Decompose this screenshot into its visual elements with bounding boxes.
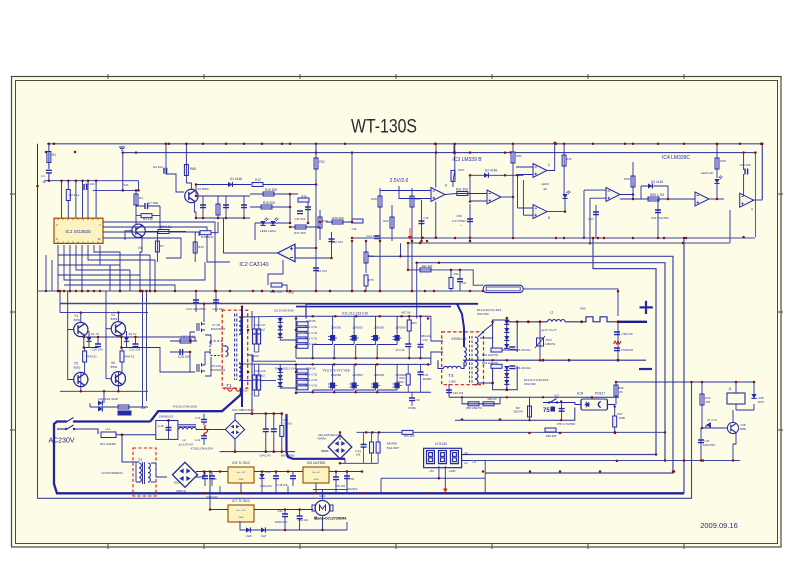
wire IC7 bottom loop bbox=[240, 521, 347, 530]
svg-text:R33: R33 bbox=[566, 157, 572, 161]
wire IC1 right fan4 bbox=[103, 238, 181, 258]
label LED3 bbox=[541, 182, 549, 186]
wire B in2 bbox=[470, 200, 487, 202]
inductor L1 bbox=[548, 320, 566, 322]
label 51 925 bbox=[387, 446, 400, 450]
label V4 8050b bbox=[111, 317, 118, 321]
label R63 470W bbox=[399, 376, 405, 380]
wire LY LO bbox=[462, 460, 470, 462]
label R56 387W bbox=[466, 406, 482, 410]
wire sec right col up bbox=[516, 322, 518, 352]
label R18 70K bbox=[270, 290, 283, 294]
label R30 51 bbox=[201, 235, 214, 239]
label C40 bbox=[195, 416, 201, 420]
wire bank1 top bbox=[296, 315, 431, 317]
resistor R1 bbox=[47, 152, 51, 163]
label V4 8050 bbox=[111, 313, 115, 317]
wire R20 link bbox=[453, 144, 455, 187]
transformer T1 box bbox=[222, 310, 248, 388]
svg-text:8059: 8059 bbox=[111, 317, 118, 321]
svg-text:Z1 4.7V: Z1 4.7V bbox=[707, 418, 717, 422]
transistor Y3 bbox=[74, 322, 88, 336]
wire R7 link bbox=[156, 232, 158, 263]
svg-text:C7 39E: C7 39E bbox=[148, 201, 158, 205]
wire x122 drop bbox=[122, 153, 124, 191]
junction dots comparator mesh bbox=[289, 193, 354, 229]
label LED1 LED2 bbox=[260, 229, 276, 233]
svg-text:220u2: 220u2 bbox=[257, 328, 265, 332]
svg-text:IC3 LM339 B: IC3 LM339 B bbox=[452, 157, 482, 163]
wire R59 row bbox=[620, 198, 695, 200]
wire bus Pd bbox=[683, 238, 685, 493]
label B46R69 bbox=[387, 442, 398, 446]
resistor R30b bbox=[449, 278, 453, 289]
capacitor C38 bbox=[614, 332, 620, 335]
wire LED drop bbox=[254, 223, 256, 240]
transformer T3 core bbox=[143, 462, 145, 484]
digit 2 bbox=[439, 451, 447, 464]
wire bank1 q1 leads bbox=[334, 316, 354, 358]
wire E3 leads bbox=[166, 144, 184, 192]
svg-text:C35 223/1kv: C35 223/1kv bbox=[515, 348, 531, 352]
svg-text:A: A bbox=[751, 207, 753, 211]
svg-text:104/58V/X2: 104/58V/X2 bbox=[159, 415, 174, 419]
label V6 8550 bbox=[111, 361, 115, 365]
winding T4 primary bbox=[464, 347, 466, 366]
wire fuse out bbox=[116, 435, 136, 462]
resistor R50 bbox=[297, 327, 308, 331]
wire R56 links bbox=[462, 403, 500, 405]
wire R62 out bbox=[502, 349, 517, 351]
wire R75 link bbox=[365, 286, 367, 291]
svg-text:75: 75 bbox=[543, 408, 550, 414]
wire output rail 322 bbox=[509, 321, 548, 323]
wire IC1 right fan1 bbox=[103, 222, 215, 291]
svg-text:40405×: 40405× bbox=[317, 437, 327, 441]
wire bus Pc bbox=[417, 263, 665, 461]
svg-text:D6,D7,D8 4148: D6,D7,D8 4148 bbox=[274, 309, 294, 313]
capacitor C20 bbox=[745, 169, 748, 175]
svg-text:IC7 TL7812: IC7 TL7812 bbox=[232, 499, 250, 503]
wire Pc drop bbox=[416, 263, 418, 319]
svg-text:GND: GND bbox=[314, 479, 319, 481]
wire tangle horiz extra bbox=[58, 265, 140, 275]
wire R27 row bbox=[408, 270, 483, 285]
wire V1 emitter bbox=[140, 236, 142, 291]
label 1000u2hv bbox=[206, 495, 219, 499]
svg-text:D3 4148: D3 4148 bbox=[651, 180, 663, 184]
wire V28 emit bbox=[733, 433, 736, 461]
resistor R19 bbox=[318, 217, 322, 228]
label C22b bbox=[42, 180, 46, 184]
svg-text:WT-130S: WT-130S bbox=[351, 117, 417, 138]
label C44 C43 bbox=[259, 454, 270, 458]
resistor R49 bbox=[297, 322, 308, 326]
label R37 25K bbox=[294, 231, 306, 235]
resistor R55 bbox=[297, 375, 308, 379]
label 22N050 b2-0 bbox=[331, 373, 342, 377]
label C28C29 val bbox=[257, 374, 265, 378]
label D12-15 bbox=[477, 308, 502, 312]
label R57 4.7 bbox=[305, 384, 317, 388]
label B47 357W bbox=[516, 406, 521, 410]
wire motor top bbox=[313, 489, 323, 499]
wire V1 base bbox=[125, 231, 133, 240]
diode D13 bbox=[504, 328, 509, 332]
svg-text:R65: R65 bbox=[580, 307, 586, 311]
svg-text:10K: 10K bbox=[706, 400, 711, 404]
wire C55 link bbox=[561, 401, 563, 420]
op-amp U3D bbox=[533, 205, 547, 219]
op-amp U4B bbox=[740, 193, 754, 207]
diode D18b bbox=[504, 380, 509, 384]
wire bridge D20 out bbox=[196, 472, 204, 478]
svg-text:Z2 7V: Z2 7V bbox=[128, 332, 136, 336]
svg-text:R3 13K: R3 13K bbox=[143, 217, 153, 221]
resistor R29 bbox=[332, 220, 343, 224]
wire mosfet s1 bbox=[205, 335, 211, 345]
wire RV4 col bbox=[539, 322, 541, 360]
svg-text:C36 223/1kv: C36 223/1kv bbox=[515, 366, 531, 370]
svg-text:KBP1H: KBP1H bbox=[176, 489, 186, 493]
label AC230V bbox=[48, 438, 74, 445]
wire LY GND drop bbox=[444, 466, 446, 490]
wire rail 419 bbox=[455, 408, 575, 421]
label V7V8 IRFZ44N bbox=[212, 323, 221, 327]
svg-text:R64 22Ω/7W: R64 22Ω/7W bbox=[482, 361, 498, 365]
label R3 13K bbox=[143, 217, 153, 221]
wire D1 link bbox=[196, 184, 251, 186]
resistor R31 bbox=[457, 192, 468, 196]
svg-text:C28 104: C28 104 bbox=[91, 348, 103, 352]
label R72b bbox=[706, 400, 711, 404]
resistor R36c bbox=[545, 428, 556, 432]
diode D17 bbox=[504, 373, 509, 377]
IC U6 UA7805 box bbox=[303, 467, 329, 483]
transistor V7 V8 mosfet bbox=[197, 322, 205, 332]
svg-text:R64: R64 bbox=[411, 321, 417, 325]
label D2 4148 bbox=[485, 169, 497, 173]
wire T4 primary bot bbox=[461, 362, 464, 369]
inductor L2 core bbox=[179, 425, 197, 427]
wire R30 out bbox=[211, 222, 218, 233]
label IC5 pins bbox=[237, 472, 246, 474]
wire C48x link bbox=[168, 421, 170, 440]
label T3 bbox=[138, 458, 142, 462]
label C16 bbox=[352, 227, 357, 231]
wire AC thick loop bbox=[54, 422, 684, 494]
capacitor C50 bbox=[333, 477, 339, 480]
label LED4 bbox=[701, 171, 713, 175]
wire comparator rail 238 bbox=[352, 237, 755, 239]
label Z1 4.7V bbox=[707, 418, 717, 422]
svg-text:R76 100: R76 100 bbox=[404, 434, 415, 438]
transformer T1 core bbox=[235, 314, 237, 381]
wire bank right parts bbox=[408, 316, 420, 406]
label IC6 UA7805 bbox=[307, 461, 326, 465]
wire xcap col bbox=[203, 414, 205, 445]
label R52 4.7 bbox=[305, 336, 317, 340]
svg-text:68/120v: 68/120v bbox=[421, 334, 432, 338]
capacitor C13b bbox=[361, 445, 367, 448]
winding T1 right lower bbox=[239, 363, 241, 381]
label R59 4.7M bbox=[650, 193, 664, 197]
svg-text:带amp•DC12V300MA: 带amp•DC12V300MA bbox=[314, 516, 347, 521]
svg-text:220×: 220× bbox=[253, 354, 260, 358]
label C48 bbox=[277, 483, 288, 487]
date 2009.09.16 bbox=[700, 521, 738, 530]
wire B out bbox=[501, 196, 513, 198]
wire BD verticals bbox=[518, 175, 524, 215]
label R16 35K bbox=[265, 188, 278, 192]
svg-text:K2: K2 bbox=[555, 394, 559, 398]
capacitor C28 bbox=[95, 344, 101, 347]
wire R56 drop bbox=[462, 397, 500, 404]
junction dots rails152 bbox=[168, 143, 763, 154]
wire top rail second bbox=[122, 152, 756, 154]
svg-text:9056: 9056 bbox=[740, 427, 747, 431]
svg-text:R11 10Ω/5W: R11 10Ω/5W bbox=[100, 442, 116, 446]
wire thick rail T4b bbox=[305, 304, 307, 319]
label R65 bbox=[580, 307, 586, 311]
label L2 bbox=[182, 438, 186, 442]
wire U4D out bbox=[620, 195, 633, 200]
svg-text:C34 104: C34 104 bbox=[453, 391, 464, 395]
wire D1 drop bbox=[195, 185, 197, 197]
wire R27 stub up bbox=[407, 243, 409, 270]
bridge rectifier D20 bbox=[173, 462, 198, 487]
label C14 100 bbox=[366, 234, 378, 238]
svg-text:AC230V: AC230V bbox=[48, 438, 74, 445]
wire IC6 gnd drop bbox=[315, 483, 317, 493]
label R36 300 bbox=[546, 434, 557, 438]
svg-text:D92×052: D92×052 bbox=[477, 312, 489, 316]
resistor R69 bbox=[376, 442, 380, 453]
wire IC1 pin3 down bbox=[69, 245, 71, 291]
wire C30 link bbox=[307, 202, 309, 223]
label R37 100Kb bbox=[619, 416, 626, 420]
wire T3 sec out bbox=[151, 463, 167, 477]
wire D22 row bbox=[90, 406, 148, 408]
svg-text:D92×052: D92×052 bbox=[524, 382, 536, 386]
wire C13v link bbox=[331, 232, 333, 258]
capacitor C55 bbox=[559, 409, 565, 412]
wire Z2 net bbox=[121, 331, 135, 348]
label 22N050 b1-1 bbox=[352, 326, 363, 330]
wire bank1 left bbox=[295, 316, 297, 358]
svg-text:R29 29K: R29 29K bbox=[332, 216, 344, 220]
label 22N050 b2-3 bbox=[395, 373, 406, 377]
label R72 10K bbox=[705, 396, 711, 400]
svg-text:C12 104: C12 104 bbox=[331, 240, 343, 244]
wire dc minus rail bbox=[220, 451, 296, 453]
wire AC thick diag bbox=[150, 388, 241, 422]
capacitor C13v bbox=[329, 239, 335, 242]
resistor R51 bbox=[297, 333, 308, 337]
label B6 5.1K bbox=[160, 225, 172, 229]
svg-text:R32: R32 bbox=[516, 154, 522, 158]
svg-text:R56: R56 bbox=[624, 177, 630, 181]
resistor R46 bbox=[715, 158, 719, 169]
IC1 pin num 8 bbox=[56, 237, 58, 241]
label E3 104 bbox=[153, 165, 163, 169]
svg-text:AC15V/300MAM: AC15V/300MAM bbox=[102, 471, 124, 475]
label J1 bbox=[728, 387, 732, 391]
transformer T1 coupling box bbox=[210, 341, 222, 356]
wire DC minus tail bbox=[344, 459, 346, 464]
label D16-19b bbox=[524, 382, 536, 386]
label Y5 8550 bbox=[74, 362, 78, 366]
wire bank1 q0 leads bbox=[313, 316, 333, 358]
wire V6 col bbox=[117, 372, 119, 392]
svg-text:600L/50V: 600L/50V bbox=[346, 487, 357, 491]
label R56r bbox=[284, 418, 289, 422]
wire bank2 q1 leads bbox=[334, 364, 354, 392]
label C37b bbox=[703, 443, 716, 447]
wire L1 out bbox=[565, 321, 584, 323]
label C25 105 bbox=[178, 355, 190, 359]
wire R18 out bbox=[282, 285, 287, 291]
capacitor C35 bbox=[509, 347, 515, 350]
svg-text:C28,C29: C28,C29 bbox=[254, 369, 265, 373]
capacitor C39 bbox=[614, 348, 620, 351]
capacitor C30 bbox=[305, 207, 311, 210]
wire T4 sec top out bbox=[478, 320, 509, 337]
svg-text:4E7,5K: 4E7,5K bbox=[401, 311, 411, 315]
resistor R53 bbox=[297, 344, 308, 348]
junction dots bottom rails bbox=[203, 432, 676, 495]
svg-text:C-4φ: C-4φ bbox=[355, 449, 361, 453]
wire hbridge bot drop bbox=[103, 391, 105, 403]
capacitor C36 bbox=[467, 219, 473, 222]
svg-text:R24: R24 bbox=[368, 254, 374, 258]
wire bank2 q0 leads bbox=[313, 364, 333, 392]
label D30 lbl2 bbox=[317, 437, 327, 441]
svg-text:D21 GBPC3610: D21 GBPC3610 bbox=[232, 408, 254, 412]
svg-text:L2: L2 bbox=[182, 438, 186, 442]
wire bank2 bot bbox=[296, 391, 431, 393]
svg-text:14B/151: 14B/151 bbox=[545, 342, 556, 346]
output plus mark bbox=[640, 301, 653, 314]
wire R15 link bbox=[250, 206, 290, 208]
label R46 1K bbox=[720, 159, 726, 163]
switch S1a bbox=[65, 418, 75, 423]
svg-text:51Ω.25Ω*: 51Ω.25Ω* bbox=[387, 446, 400, 450]
label C36 bbox=[456, 214, 462, 218]
junction dots regs bbox=[203, 470, 364, 494]
svg-text:C55 4.7U/50V: C55 4.7U/50V bbox=[557, 422, 576, 426]
wire C1 down bbox=[48, 173, 50, 181]
svg-text:C53: C53 bbox=[277, 509, 283, 513]
wire bank1 q2 leads bbox=[356, 316, 376, 358]
label R37 100K bbox=[617, 412, 623, 416]
resistor R36 bbox=[298, 198, 309, 202]
label R56r b bbox=[284, 422, 293, 426]
svg-text:C50 104: C50 104 bbox=[335, 484, 345, 488]
svg-text:L1: L1 bbox=[550, 311, 554, 315]
op-amp U2 CA3140 bbox=[278, 244, 296, 262]
wire U4B out bbox=[752, 199, 762, 201]
wire C46 links bbox=[205, 472, 212, 487]
wire bank mid link bbox=[248, 355, 253, 361]
IC1 pin ticks bbox=[58, 218, 98, 243]
capacitor C8 bbox=[84, 184, 87, 190]
svg-text:C14 100: C14 100 bbox=[366, 234, 378, 238]
svg-text:R56 4.7Ω: R56 4.7Ω bbox=[305, 378, 317, 382]
wire R12 out bbox=[263, 184, 316, 186]
wire fuse to X2 box bbox=[122, 434, 156, 436]
wire tangle extra bbox=[46, 255, 130, 291]
title WT-130S bbox=[351, 117, 417, 138]
wire R10 link bbox=[194, 232, 196, 263]
wire C23 link bbox=[215, 291, 217, 312]
resistor R52 bbox=[297, 339, 308, 343]
label C50 104 bbox=[335, 484, 345, 488]
label C17 bbox=[588, 217, 594, 221]
label C3 104 bbox=[85, 182, 95, 186]
label C31 104 bbox=[129, 348, 141, 352]
diode D9 bbox=[278, 368, 283, 372]
wire B6 link bbox=[145, 231, 187, 233]
wire A out bbox=[445, 194, 489, 195]
wire V2 emitter bbox=[194, 201, 196, 218]
wire R11 leads bbox=[315, 144, 317, 248]
resistor R37b bbox=[613, 416, 617, 427]
svg-text:0.47U/50V: 0.47U/50V bbox=[452, 219, 466, 223]
junction dots relay rail bbox=[655, 453, 686, 473]
svg-text:R36: R36 bbox=[301, 195, 307, 199]
label C37 bbox=[704, 439, 710, 443]
wire hbridge bot rail bbox=[60, 390, 148, 392]
svg-text:C31 104: C31 104 bbox=[129, 348, 141, 352]
resistor R75 bbox=[364, 275, 368, 286]
wire opampA in1 bbox=[380, 190, 431, 192]
svg-text:C44,C43: C44,C43 bbox=[259, 454, 270, 458]
label Z1 7V bbox=[91, 332, 99, 336]
wire C34 links bbox=[448, 384, 450, 397]
wire T1 out mid bbox=[239, 363, 296, 366]
svg-text:R27 100: R27 100 bbox=[422, 264, 433, 268]
wire top rail main bbox=[47, 144, 762, 200]
capacitor C23 bbox=[213, 300, 219, 303]
label R32 25K bbox=[516, 154, 522, 158]
resistor R54 bbox=[297, 369, 308, 373]
resistor R72 bbox=[700, 394, 704, 405]
svg-text:8050: 8050 bbox=[74, 318, 81, 322]
label D21 GBPC3510 bbox=[232, 408, 254, 412]
label R19 2K bbox=[322, 219, 328, 223]
wire ref rail bbox=[351, 152, 353, 222]
capacitor C6 bbox=[223, 205, 229, 208]
wire T3 prim wires bbox=[136, 462, 139, 482]
wire R23 link bbox=[411, 188, 413, 291]
resistor R16 bbox=[263, 192, 274, 196]
capacitor C45b bbox=[209, 476, 215, 479]
wire T1 out top bbox=[239, 315, 296, 318]
svg-text:C17: C17 bbox=[588, 217, 594, 221]
wire IC2 gnd bbox=[268, 260, 283, 285]
svg-text:390K/2: 390K/2 bbox=[284, 422, 293, 426]
svg-text:R30 51Ω: R30 51Ω bbox=[201, 235, 214, 239]
wire Z1 net bbox=[84, 331, 98, 348]
label 4E7 5K bbox=[401, 311, 411, 315]
label C11 501 bbox=[294, 217, 305, 221]
resistor R76 bbox=[402, 430, 413, 434]
svg-text:C-42: C-42 bbox=[195, 438, 201, 442]
diode D22 bbox=[98, 400, 102, 405]
label RV4 bbox=[546, 338, 552, 342]
svg-text:C16: C16 bbox=[352, 227, 357, 231]
